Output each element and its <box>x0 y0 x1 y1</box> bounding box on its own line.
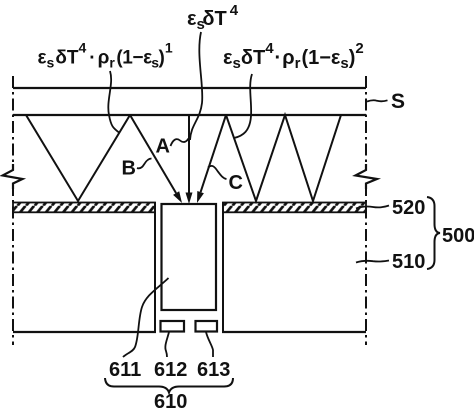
leader to 510 <box>356 261 389 263</box>
electrode 612 <box>161 321 185 332</box>
substrate 510 bottom right <box>222 331 366 333</box>
ray C (to absorber) <box>201 115 226 192</box>
svg-text:C: C <box>229 172 243 194</box>
reflective layer 520 left band (hatched) <box>13 203 155 213</box>
svg-text:A: A <box>156 136 170 158</box>
leader B <box>137 159 152 169</box>
right break mark <box>356 164 378 189</box>
leader A <box>171 139 189 147</box>
leader to 612 <box>165 332 169 357</box>
left section cut line (dash-dot) <box>12 76 14 168</box>
leader from top-center label to incident ray A <box>190 32 202 140</box>
brace 500 <box>427 197 440 269</box>
underbrace 610 <box>105 378 233 393</box>
sensing membrane 611 <box>162 204 217 310</box>
substrate 510 cavity right wall <box>222 202 224 332</box>
leader to 613 <box>206 332 213 357</box>
leader C <box>208 166 227 179</box>
substrate 510 cavity left wall <box>154 202 156 332</box>
svg-text:S: S <box>391 90 405 113</box>
surface S bottom line <box>13 114 366 116</box>
right section cut line (dash-dot) <box>365 76 367 168</box>
leader from top-right label to twice-reflected ray <box>234 74 252 138</box>
svg-text:613: 613 <box>197 359 230 381</box>
leader from top-left label to once-reflected ray <box>108 71 119 133</box>
incident ray A (vertical) <box>188 115 190 193</box>
svg-text:611: 611 <box>109 359 141 381</box>
svg-text:612: 612 <box>154 359 187 381</box>
substrate 510 bottom left <box>13 331 156 333</box>
arrowhead ray B <box>173 191 182 203</box>
leader to 611 <box>123 278 169 357</box>
svg-text:610: 610 <box>154 391 187 413</box>
arrowhead ray A <box>186 193 193 205</box>
left break mark <box>3 164 23 189</box>
leader to 520 <box>356 206 389 209</box>
surface S top line <box>13 87 366 89</box>
arrowhead ray C <box>197 191 204 203</box>
electrode 613 <box>196 321 218 332</box>
svg-text:510: 510 <box>392 251 425 273</box>
svg-text:520: 520 <box>392 197 425 219</box>
reflective layer 520 right band (hatched) <box>223 203 366 213</box>
right reflected ray zigzag <box>226 115 341 201</box>
svg-text:B: B <box>122 158 136 180</box>
ray B (to absorber) <box>130 115 176 193</box>
leader to S <box>367 100 388 101</box>
left reflected ray zigzag <box>26 115 130 201</box>
svg-text:500: 500 <box>442 225 474 247</box>
